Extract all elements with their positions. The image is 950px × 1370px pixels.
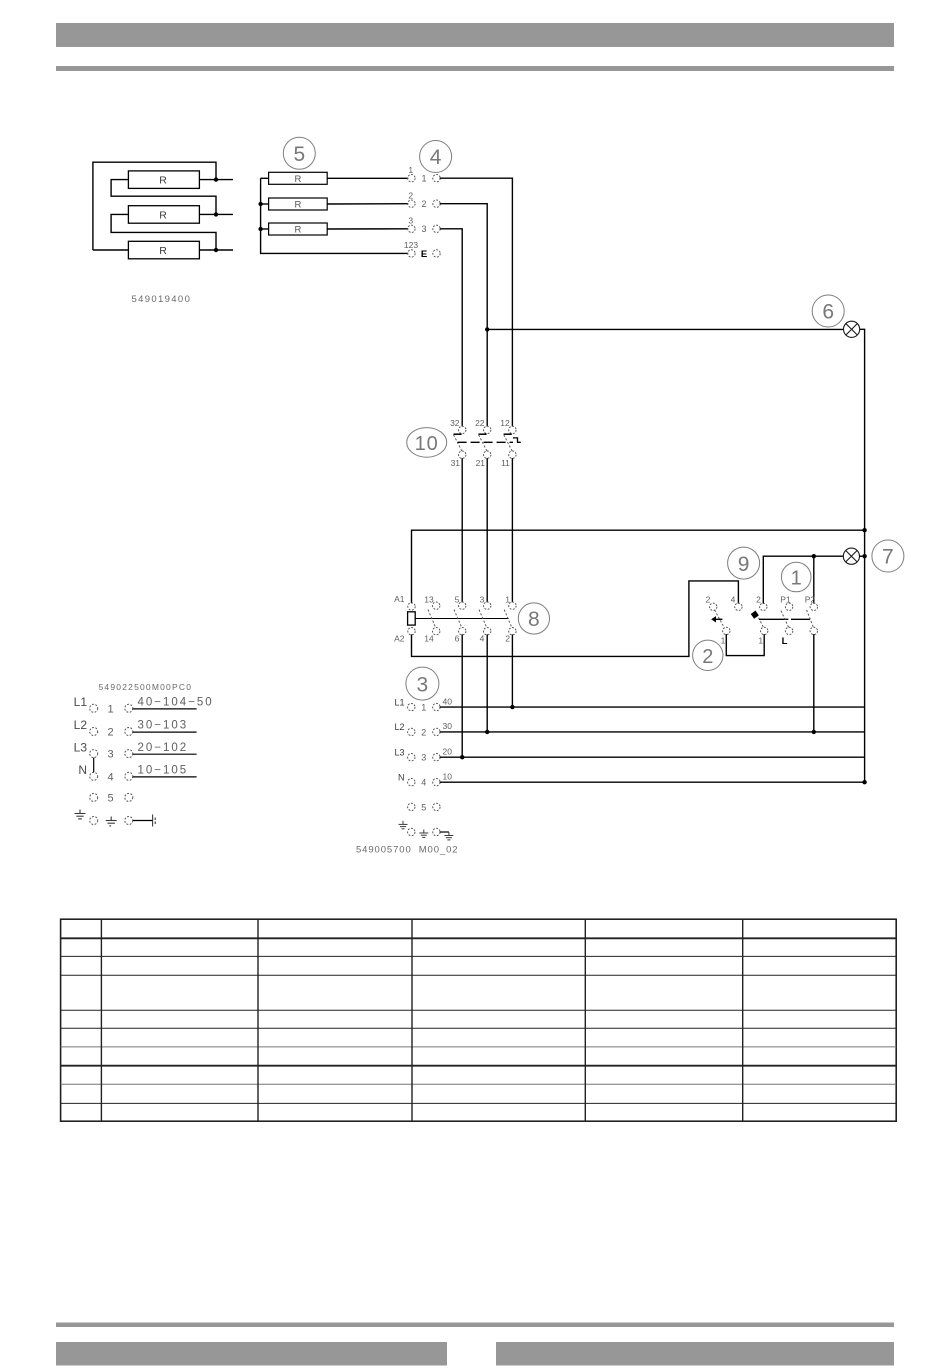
resistor bank A box R2 <box>128 206 199 224</box>
contactor K10 pole 32-31 terminals <box>459 426 466 458</box>
svg-text:A1: A1 <box>394 594 405 604</box>
svg-text:L3: L3 <box>74 740 88 754</box>
callout 9 <box>728 547 760 579</box>
svg-text:7: 7 <box>882 546 894 569</box>
footer rule thin <box>56 1323 894 1328</box>
switch S2b terminal 2 <box>760 603 767 610</box>
svg-text:2: 2 <box>706 595 711 605</box>
wire bank B R6 left stub <box>261 228 269 230</box>
wire N row <box>440 781 865 783</box>
resistor bank A box R1 <box>128 171 199 189</box>
node junction R1 output <box>214 177 218 181</box>
wire pole 11 down to relay contact 1 <box>511 458 513 602</box>
node junction bank B row2 <box>258 202 262 206</box>
contactor K10 pole 12-11 moving contact <box>504 435 512 451</box>
wire R6 to terminal 3 <box>327 228 408 230</box>
svg-text:3: 3 <box>417 673 429 696</box>
svg-text:31: 31 <box>451 458 461 468</box>
ground symbol PC0 middle <box>106 817 117 826</box>
wire stub pin 1 <box>133 708 197 710</box>
svg-text:1: 1 <box>791 567 802 589</box>
wire R4 to terminal 1 <box>327 177 408 179</box>
svg-text:1: 1 <box>408 165 413 175</box>
wire relay contact 4 to L2 row <box>486 634 488 732</box>
switch linkage S2b to P2 <box>759 618 788 620</box>
callout 8 <box>518 603 549 634</box>
svg-text:3: 3 <box>421 753 426 763</box>
switch S2b moving contact <box>755 611 764 629</box>
svg-text:4: 4 <box>480 634 485 644</box>
connector X4 pin E left circle <box>408 250 415 257</box>
switch P2 moving contact <box>807 610 814 628</box>
svg-text:32: 32 <box>450 418 460 428</box>
connector X3 pin 4 circles <box>408 779 415 786</box>
svg-text:21: 21 <box>476 458 486 468</box>
svg-text:R: R <box>159 245 167 257</box>
switch S2b terminal 1 <box>761 627 768 634</box>
svg-text:5: 5 <box>421 802 426 812</box>
resistor bank A box R3 <box>128 241 199 258</box>
svg-text:3: 3 <box>421 224 426 234</box>
contactor K10 trip step symbol <box>513 438 521 442</box>
connector X4 pin 1 left circle <box>408 175 415 182</box>
wire bottom run to R3 left <box>93 249 128 251</box>
wire R5 to terminal 2 <box>327 203 408 205</box>
wire S2b-2 up to lamp H7 line <box>763 556 843 603</box>
svg-text:R: R <box>294 225 301 236</box>
svg-text:2: 2 <box>421 199 426 209</box>
svg-text:L2: L2 <box>394 722 404 732</box>
relay K8 contact 5-6 terminals <box>459 602 466 635</box>
wire stub pin 3 <box>133 753 197 755</box>
svg-text:11: 11 <box>501 458 510 468</box>
wire pole 21 down to relay contact 3 <box>486 458 488 602</box>
wire L2 row <box>440 731 865 733</box>
svg-text:10−105: 10−105 <box>138 765 189 777</box>
svg-text:1: 1 <box>107 703 113 715</box>
footer bar left <box>56 1342 447 1366</box>
relay K8 contact 13-14 terminals <box>433 602 440 635</box>
svg-text:R: R <box>159 175 167 187</box>
relay K8 coil terminal A2 <box>408 628 415 635</box>
relay K8 linkage <box>415 618 509 620</box>
svg-text:2: 2 <box>408 191 413 201</box>
connector X4 pin 3 right circle <box>433 225 440 232</box>
wire lamp H6 to right return rail <box>860 329 865 782</box>
svg-text:13: 13 <box>424 595 434 605</box>
wire PC0 earth stub <box>133 820 153 822</box>
svg-text:P1: P1 <box>780 595 791 605</box>
contactor K10 pole 12-11 terminals <box>509 426 516 458</box>
svg-text:5: 5 <box>107 792 113 804</box>
switch P2 terminal P2 <box>810 603 817 610</box>
connector X4 pin 2 right circle <box>433 200 440 207</box>
contactor K10 pole 32-31 contact bar <box>453 433 461 435</box>
svg-text:3: 3 <box>408 216 413 226</box>
switch S2a actuator arrow <box>715 618 723 620</box>
svg-text:30: 30 <box>443 721 453 731</box>
svg-text:1: 1 <box>421 173 426 183</box>
resistor bank B box R5 <box>269 198 328 210</box>
svg-text:10: 10 <box>415 433 439 455</box>
wire stub pin 2 <box>133 731 197 733</box>
svg-text:549019400: 549019400 <box>132 294 192 305</box>
wire R2 left to R3 output loop <box>111 214 216 250</box>
wire R2 output stub <box>199 213 233 215</box>
switch S2a terminal 1 <box>723 627 730 634</box>
wire R3 output stub <box>199 249 233 251</box>
svg-text:6: 6 <box>455 634 460 644</box>
contactor K10 pole 12-11 contact bar <box>504 433 512 435</box>
connector PC0 earth circles <box>90 817 98 825</box>
node junction contact 2 on L1 <box>510 705 514 709</box>
wire R1 output stub <box>199 179 233 181</box>
lamp H7 <box>843 548 859 564</box>
svg-text:L1: L1 <box>74 695 88 709</box>
connector X4 pin 3 left circle <box>408 225 415 232</box>
svg-text:2: 2 <box>421 727 426 737</box>
contactor K10 pole 32-31 moving contact <box>454 435 462 451</box>
ground symbol PC0 left <box>75 810 86 819</box>
connector X3 pin 1 circles <box>408 703 415 710</box>
footer bar right <box>496 1342 894 1366</box>
svg-text:4: 4 <box>430 146 442 169</box>
connector PC0 pin 3 circles <box>90 750 98 758</box>
svg-text:L3: L3 <box>394 747 404 757</box>
node junction bank B row3 <box>258 227 262 231</box>
wire X4 pin3 to contactor pole 32 <box>440 229 463 427</box>
svg-text:6: 6 <box>822 301 834 324</box>
switch P1 terminal L <box>785 627 792 634</box>
wire coil feed A1 from right rail <box>412 530 865 603</box>
svg-text:1: 1 <box>758 635 763 645</box>
connector PC0 pin 1 circles <box>90 704 98 712</box>
wire stub pin 4 <box>133 776 197 778</box>
svg-text:10: 10 <box>443 771 453 781</box>
svg-text:1: 1 <box>505 595 510 605</box>
svg-text:30−103: 30−103 <box>138 720 189 732</box>
switch S2b cam mark <box>751 611 759 619</box>
svg-text:8: 8 <box>528 608 540 631</box>
svg-text:2: 2 <box>107 727 113 739</box>
header bar thick <box>56 23 894 47</box>
svg-text:20: 20 <box>443 746 453 756</box>
callout 7 <box>872 540 904 572</box>
node junction contact 4 on L2 <box>485 730 489 734</box>
svg-text:14: 14 <box>424 634 434 644</box>
svg-text:12: 12 <box>500 418 510 428</box>
wire bank B R5 left stub <box>261 203 269 205</box>
ground symbol X3 left <box>399 821 408 829</box>
connector X4 pin E right circle <box>433 250 440 257</box>
svg-text:5: 5 <box>293 143 305 166</box>
wire lamp H7 to rail <box>860 555 865 557</box>
header rule thin <box>56 66 894 71</box>
svg-text:R: R <box>294 200 301 211</box>
svg-text:L1: L1 <box>394 697 404 707</box>
relay K8 contact 5-6 moving contact <box>454 610 462 629</box>
connector X4 pin 1 right circle <box>433 175 440 182</box>
wire P2 branch down <box>813 556 815 603</box>
resistor bank B box R4 <box>269 172 328 184</box>
callout 4 <box>420 141 452 173</box>
contactor K10 pole 22-21 contact bar <box>478 433 486 435</box>
connector X3 pin 3 circles <box>408 754 415 761</box>
wire to lamp H6 <box>487 328 843 330</box>
wire L3 row <box>440 756 865 758</box>
wire X3 earth stub <box>440 831 449 833</box>
svg-text:3: 3 <box>480 595 485 605</box>
wire bank B R4 left stub <box>261 177 269 179</box>
svg-text:40: 40 <box>443 696 453 706</box>
wire bank B common left vertical to E terminal <box>261 178 409 253</box>
svg-text:123: 123 <box>404 240 418 250</box>
link wire L3 to N left circles <box>93 758 95 773</box>
wire relay contact 2 to L1 row <box>511 634 513 707</box>
svg-text:P2: P2 <box>805 595 816 605</box>
svg-text:22: 22 <box>475 418 485 428</box>
svg-text:4: 4 <box>731 595 736 605</box>
wire X4 pin1 to contactor pole 12 <box>440 178 513 426</box>
connector PC0 pin 4 circles <box>90 772 98 780</box>
contactor K10 linkage dashed <box>458 441 513 443</box>
node junction contact 6 on L3 <box>460 755 464 759</box>
switch P1 moving contact <box>781 611 789 628</box>
svg-text:4: 4 <box>421 778 426 788</box>
svg-text:549005700 M00_02: 549005700 M00_02 <box>356 845 458 856</box>
svg-text:20−102: 20−102 <box>138 742 189 754</box>
callout 3 <box>406 667 439 700</box>
ground symbol X3 right <box>444 832 453 840</box>
wire relay contact 6 to L3 row <box>461 634 463 757</box>
callout 10 <box>407 428 447 458</box>
wire S2a-1 to S2b-1 <box>726 634 764 656</box>
lamp H6 <box>844 321 860 337</box>
node junction rail at lamp H7 <box>862 554 866 558</box>
svg-text:A2: A2 <box>394 634 405 644</box>
svg-text:549022500M00PC0: 549022500M00PC0 <box>99 682 193 692</box>
connector X3 earth circles <box>408 828 415 835</box>
svg-text:4: 4 <box>107 771 113 783</box>
callout 1 <box>781 562 811 592</box>
contactor K10 pole 22-21 terminals <box>484 426 491 458</box>
wire L1 row <box>440 706 865 708</box>
wire outer loop left vertical and top run to R1 output <box>93 162 216 250</box>
node junction rail at N row <box>862 780 866 784</box>
connector X3 pin 2 circles <box>408 728 415 735</box>
svg-text:9: 9 <box>738 553 750 576</box>
node junction P2 on L2 <box>812 730 816 734</box>
ground symbol PC0 right <box>153 815 156 827</box>
svg-text:L: L <box>782 636 788 647</box>
svg-text:E: E <box>421 249 427 260</box>
relay K8 contact 1-2 terminals <box>509 602 516 635</box>
wire R1 left to R2 output loop <box>111 180 216 215</box>
svg-text:N: N <box>78 763 87 777</box>
svg-text:1: 1 <box>421 703 426 713</box>
wire P2 bottom to L2 row <box>813 634 815 732</box>
revision table <box>61 919 897 1121</box>
connector X4 pin 2 left circle <box>408 200 415 207</box>
node junction R3 output <box>214 248 218 252</box>
connector PC0 terminals <box>90 704 133 824</box>
relay K8 coil <box>408 612 416 625</box>
svg-text:2: 2 <box>702 646 713 668</box>
relay K8 coil terminal A1 <box>408 603 415 610</box>
ground symbol X3 middle <box>419 830 428 838</box>
svg-text:N: N <box>398 772 405 782</box>
svg-text:5: 5 <box>455 595 460 605</box>
wire X4 pin2 to contactor pole 22 <box>440 204 488 427</box>
connector X3 terminals <box>408 703 441 835</box>
svg-text:L2: L2 <box>74 718 88 732</box>
svg-text:40−104−50: 40−104−50 <box>138 697 214 709</box>
node junction rail at coil feed <box>862 528 866 532</box>
connector PC0 pin 5 circles <box>90 793 98 801</box>
svg-text:3: 3 <box>107 749 113 761</box>
resistor bank B box R6 <box>269 223 328 235</box>
relay K8 contact 1-2 moving contact <box>504 610 512 629</box>
switch P2 terminal bottom <box>810 627 817 634</box>
connector PC0 pin 2 circles <box>90 728 98 736</box>
switch P1 terminal P1 <box>785 603 792 610</box>
switch terminal 4 <box>735 603 742 610</box>
relay K8 contact 3-4 terminals <box>484 602 491 635</box>
wire A2 to switch terminal 4 <box>412 581 739 657</box>
relay K8 contact 13-14 moving contact <box>428 610 436 629</box>
svg-text:R: R <box>159 209 167 221</box>
node junction lamp H6 branch <box>485 327 489 331</box>
contactor K10 pole 22-21 moving contact <box>479 435 487 451</box>
node junction P2 branch <box>812 554 816 558</box>
switch S2a moving contact <box>715 610 725 629</box>
node junction R2 output <box>214 212 218 216</box>
svg-text:R: R <box>294 174 301 185</box>
wire pole 31 down to relay contact 5 <box>461 458 463 602</box>
callout 6 <box>812 295 844 327</box>
svg-text:2: 2 <box>505 634 510 644</box>
callout 2 <box>693 640 723 670</box>
connector X3 pin 5 circles <box>408 803 415 810</box>
switch S2a terminal 2 <box>710 603 717 610</box>
callout 5 <box>283 137 315 169</box>
relay K8 contact 3-4 moving contact <box>479 610 487 629</box>
svg-text:1: 1 <box>721 635 726 645</box>
svg-text:2: 2 <box>756 595 761 605</box>
